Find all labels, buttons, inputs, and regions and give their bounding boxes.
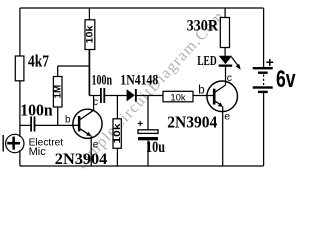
- svg-text:10u: 10u: [146, 139, 165, 156]
- resistor R5 10k mid: [113, 119, 121, 149]
- diode D1 1N4148: [127, 89, 135, 101]
- svg-text:100n: 100n: [92, 73, 113, 89]
- wire 10u bottom stub: [147, 140, 149, 166]
- wire 10u top stub: [147, 96, 149, 130]
- wire bottom rail: [20, 165, 264, 167]
- transistor Q1 2N3904: [73, 109, 102, 138]
- wire left rail mid: [19, 81, 21, 137]
- wire 10k mid top stub: [116, 96, 118, 119]
- capacitor C1 100n: [30, 117, 32, 132]
- wire 1M bottom stub: [57, 107, 59, 125]
- svg-text:+: +: [137, 119, 143, 130]
- wire right rail: [263, 8, 265, 67]
- wire mic node to C1: [20, 124, 30, 126]
- svg-text:330R: 330R: [187, 17, 219, 34]
- wire battery to ground: [263, 93, 265, 166]
- capacitor C3 10u polarized: [138, 130, 158, 134]
- svg-text:1M: 1M: [52, 85, 63, 99]
- svg-text:b: b: [65, 114, 71, 125]
- LED D2: [219, 56, 233, 64]
- wire top rail: [20, 7, 264, 9]
- svg-text:1N4148: 1N4148: [120, 73, 158, 89]
- LED emission arrow: [232, 57, 240, 68]
- electret mic: [3, 134, 24, 152]
- wire R4 to base Q2: [193, 95, 213, 97]
- resistor R1 4k7: [15, 56, 24, 81]
- wire Q1 emitter to ground: [90, 136, 92, 167]
- wire Q2 emitter to ground: [222, 107, 224, 167]
- svg-text:e: e: [224, 111, 230, 123]
- svg-text:b: b: [198, 85, 204, 97]
- wire C2 to diode: [105, 95, 126, 97]
- wire 1M top stub: [57, 66, 59, 77]
- wire C1 to base Q1: [35, 124, 78, 126]
- wire 10k mid bottom stub: [116, 148, 118, 166]
- svg-text:LED: LED: [197, 54, 217, 69]
- svg-text:2N3904: 2N3904: [167, 113, 218, 132]
- svg-text:c: c: [93, 96, 98, 108]
- wire diode to R4 box: [137, 95, 163, 97]
- resistor R6 330R: [220, 18, 229, 48]
- svg-text:Mic: Mic: [29, 146, 47, 158]
- wire 330R top stub: [224, 8, 226, 18]
- transistor Q2 2N3904: [207, 81, 238, 112]
- svg-text:10k: 10k: [170, 92, 186, 103]
- wire collector node to C2: [89, 95, 100, 97]
- wire LED to Q2 collector: [225, 67, 227, 85]
- resistor R4 10k box: [163, 91, 193, 102]
- svg-text:10k: 10k: [112, 123, 123, 144]
- svg-text:c: c: [227, 72, 232, 84]
- capacitor C2 100n: [100, 88, 102, 103]
- wire mic to ground: [19, 150, 21, 166]
- wire 330R to LED: [224, 48, 226, 56]
- svg-text:100n: 100n: [20, 101, 53, 120]
- svg-text:4k7: 4k7: [28, 51, 49, 70]
- svg-text:e: e: [93, 140, 99, 151]
- resistor R3 1M: [53, 77, 62, 108]
- svg-text:+: +: [266, 55, 274, 70]
- svg-text:2N3904: 2N3904: [55, 151, 108, 168]
- wire left rail upper: [19, 8, 21, 56]
- wire 1M feedback horizontal: [58, 65, 90, 67]
- wire 10k bottom to collector node: [88, 50, 90, 96]
- wire Q1 collector vertical: [93, 96, 95, 111]
- battery B1 6v: [253, 67, 273, 93]
- wire 10k top stub: [88, 8, 90, 20]
- svg-text:10k: 10k: [85, 25, 96, 44]
- watermark: [73, 7, 228, 172]
- resistor R2 10k top: [85, 20, 95, 50]
- svg-text:6v: 6v: [276, 66, 296, 93]
